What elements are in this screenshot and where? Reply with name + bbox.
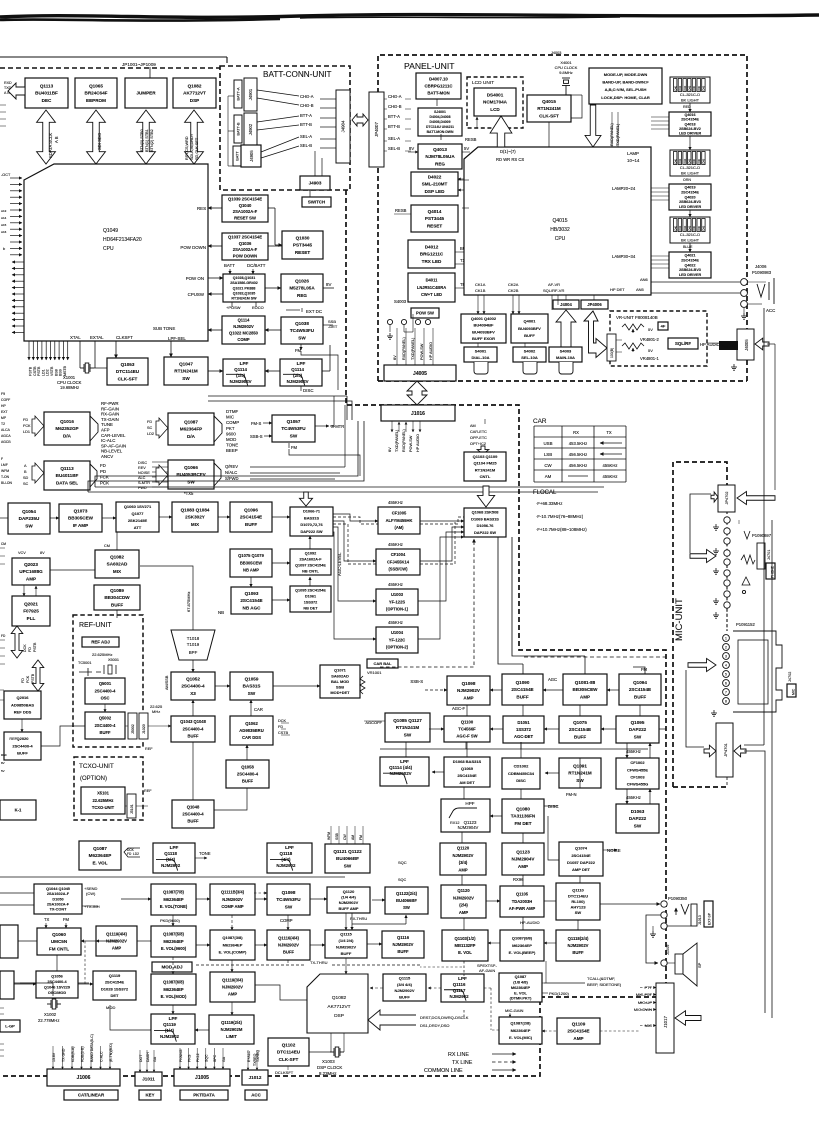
- svg-text:Q5001: Q5001: [99, 681, 112, 686]
- svg-text:CHG-B: CHG-B: [388, 104, 402, 109]
- svg-text:Q1087: Q1087: [93, 846, 107, 851]
- svg-text:DAP222: DAP222: [629, 816, 647, 821]
- connector J1005: [174, 1069, 230, 1086]
- svg-text:AMP: AMP: [26, 576, 36, 581]
- LPF Q1114 4/4: [380, 757, 429, 786]
- Q1095 SW: [616, 716, 659, 743]
- svg-text:2SC4400-4: 2SC4400-4: [95, 723, 116, 728]
- svg-text:Q1037 2SC4154E: Q1037 2SC4154E: [228, 235, 262, 240]
- svg-text:LAMP20~24: LAMP20~24: [612, 186, 636, 191]
- svg-text:DS1,DRDY,DSO: DS1,DRDY,DSO: [420, 1023, 450, 1028]
- svg-text:9600: 9600: [226, 431, 236, 436]
- REF ADJ label: [82, 637, 119, 647]
- svg-text:Q1095 2SC4154E: Q1095 2SC4154E: [295, 588, 326, 592]
- jack contact: [724, 517, 730, 523]
- svg-text:SQL/RF-VR: SQL/RF-VR: [543, 288, 564, 293]
- Q5002 BUFF: [85, 712, 125, 739]
- arrow JP4701 left: [704, 745, 716, 757]
- LED driver 2: [669, 184, 711, 210]
- wire into Q1090 top: [522, 664, 524, 674]
- connector J1016: [381, 405, 455, 421]
- svg-text:Q1114: Q1114: [291, 367, 304, 372]
- jack contact: [742, 590, 745, 593]
- jumper block: [125, 78, 167, 108]
- mid bus AGC-F etc: [429, 764, 432, 766]
- svg-text:∙F-10.7MHz(76~88MHz): ∙F-10.7MHz(76~88MHz): [536, 514, 584, 519]
- jack contact: [723, 689, 730, 696]
- svg-text:LD2: LD2: [133, 852, 139, 856]
- svg-text:Q1119(2/4): Q1119(2/4): [221, 1020, 242, 1025]
- svg-text:NJM2902V: NJM2902V: [393, 942, 414, 947]
- Q1080 FM DET: [502, 799, 544, 833]
- svg-text:D1028 1SS372: D1028 1SS372: [101, 986, 129, 991]
- wires right of E.VOL row1: [121, 898, 151, 900]
- Q1100 AGC-F SW: [444, 716, 490, 742]
- svg-text:Q1036: Q1036: [239, 241, 252, 246]
- svg-text:COMP AMP: COMP AMP: [221, 904, 244, 909]
- Q1095 NB DET: [290, 586, 331, 612]
- Q2016 REF DDS: [4, 691, 41, 719]
- wire ACC down: [763, 308, 765, 745]
- svg-text:NJM2902V: NJM2902V: [453, 895, 474, 900]
- svg-text:BUFF: BUFF: [245, 522, 257, 527]
- wire Q1095 sw right to border: [659, 728, 666, 730]
- svg-text:DASH: DASH: [146, 1052, 150, 1062]
- svg-text:Q1043 Q1048: Q1043 Q1048: [180, 719, 206, 724]
- svg-text:AM: AM: [351, 835, 355, 840]
- svg-text:E. VOL(MOD): E. VOL(MOD): [161, 994, 187, 999]
- svg-text:(4/4): (4/4): [281, 857, 291, 862]
- wire POW ON: [208, 277, 223, 279]
- svg-text:FM DET: FM DET: [514, 821, 531, 826]
- svg-text:(1/8 4/8): (1/8 4/8): [513, 980, 528, 985]
- svg-text:CL-321C-D: CL-321C-D: [680, 232, 700, 237]
- arrow into right SW: [477, 486, 494, 507]
- svg-text:Q1110: Q1110: [572, 888, 584, 893]
- svg-text:MIC: MIC: [226, 415, 234, 420]
- svg-text:D4007.10: D4007.10: [429, 76, 448, 81]
- svg-text:D40: D40: [679, 158, 682, 163]
- svg-text:REF: REF: [144, 789, 152, 793]
- wire jack loop: [646, 915, 661, 963]
- svg-text:J4003: J4003: [551, 51, 561, 55]
- D1063 SW: [616, 804, 659, 833]
- svg-text:2SC4154E: 2SC4154E: [567, 1029, 589, 1034]
- svg-text:FM-N: FM-N: [566, 792, 576, 797]
- svg-text:2SB624-BV3: 2SB624-BV3: [679, 200, 701, 204]
- svg-text:AMP: AMP: [580, 694, 590, 699]
- dashed col x85: [84, 941, 86, 984]
- svg-text:1SS372: 1SS372: [304, 600, 318, 604]
- svg-text:E+ALC: E+ALC: [247, 1050, 251, 1062]
- svg-text:SEL-10A: SEL-10A: [521, 355, 538, 360]
- wire reset: [275, 244, 282, 246]
- Q1092 NB CNTL: [290, 549, 331, 575]
- svg-text:IF AMP: IF AMP: [73, 523, 88, 528]
- connector J4905: [241, 145, 261, 167]
- svg-text:(SSB/CW): (SSB/CW): [388, 567, 408, 572]
- svg-text:Q1113: Q1113: [60, 466, 74, 471]
- svg-text:TXD(PANEL): TXD(PANEL): [411, 337, 415, 360]
- svg-text:Q1069: Q1069: [461, 766, 474, 771]
- svg-text:BB305CEW: BB305CEW: [240, 560, 262, 565]
- svg-text:RESET: RESET: [427, 223, 443, 228]
- Q4014 RESET: [411, 205, 458, 232]
- VR-UNIT dashed: [610, 311, 707, 366]
- svg-text:D1070,72,76: D1070,72,76: [300, 522, 323, 527]
- svg-text:REF-UNIT: REF-UNIT: [79, 622, 112, 629]
- bus arrow DSP ctl: [185, 110, 204, 164]
- svg-text:PANEL-UNIT: PANEL-UNIT: [404, 61, 455, 71]
- svg-text:AGCB: AGCB: [1, 440, 11, 444]
- svg-text:NB CNTL: NB CNTL: [302, 569, 319, 573]
- trimmer + crystal: [79, 668, 101, 676]
- svg-text:AK7712VT: AK7712VT: [327, 1004, 350, 1010]
- jack contact: [387, 319, 392, 324]
- svg-text:BATT-MON: BATT-MON: [427, 91, 449, 96]
- D4011 CW+T LED: [408, 273, 455, 302]
- Q1047 SW: [164, 357, 208, 385]
- svg-text:CLK-SFT: CLK-SFT: [279, 1057, 299, 1062]
- svg-text:SJ4001: SJ4001: [434, 110, 446, 114]
- svg-text:RST,CS,WRD: RST,CS,WRD: [185, 136, 189, 160]
- Q1073 IF AMP: [59, 504, 102, 532]
- svg-text:+POSW: +POSW: [226, 305, 241, 310]
- svg-text:TCXO-UNIT: TCXO-UNIT: [92, 805, 115, 810]
- svg-text:Q1022 MC2850: Q1022 MC2850: [229, 331, 259, 336]
- svg-text:BATT: BATT: [224, 263, 235, 268]
- CPU Q4015: [464, 147, 651, 295]
- svg-text:X1002: X1002: [44, 1012, 57, 1017]
- svg-text:E. VOL(9600): E. VOL(9600): [161, 946, 187, 951]
- Q2023 AMP: [12, 558, 50, 585]
- svg-text:22.778MHz: 22.778MHz: [38, 1018, 59, 1023]
- svg-text:E. VOL: E. VOL: [458, 950, 472, 955]
- svg-text:SDLK,SI,DRDY: SDLK,SI,DRDY: [190, 133, 194, 160]
- svg-text:5V: 5V: [1, 769, 5, 773]
- svg-text:LED DRIVER: LED DRIVER: [679, 132, 702, 136]
- svg-text:CAR: CAR: [254, 707, 263, 712]
- LCD unit dashed: [467, 77, 523, 128]
- svg-text:Q1074: Q1074: [575, 846, 588, 851]
- svg-text:19.68MHz: 19.68MHz: [60, 385, 79, 390]
- svg-text:CFJ455K14: CFJ455K14: [387, 559, 410, 564]
- svg-text:AM: AM: [470, 424, 476, 428]
- svg-text:Q1119: Q1119: [163, 1022, 176, 1027]
- svg-text:NJM2902V: NJM2902V: [336, 945, 356, 950]
- connector J4903: [300, 176, 330, 190]
- left col labels mid: [0, 689, 4, 691]
- svg-text:9.8MHz: 9.8MHz: [559, 70, 572, 75]
- svg-text:RXD(PANEL): RXD(PANEL): [402, 337, 406, 360]
- svg-text:P1090350: P1090350: [668, 896, 688, 901]
- svg-text:Q1105: Q1105: [516, 892, 529, 897]
- svg-text:LMF: LMF: [1, 463, 8, 467]
- DSP Q1082: [307, 974, 368, 1033]
- Q1037/Q1036 POW DOWN: [222, 233, 268, 260]
- svg-text:Q1032,Q1035: Q1032,Q1035: [233, 292, 256, 296]
- svg-text:X5001: X5001: [108, 658, 119, 662]
- encoder S4002: [513, 347, 546, 362]
- svg-text:SW: SW: [290, 433, 298, 438]
- wire J1016 to IF bus: [95, 421, 358, 487]
- svg-text:CHG-B: CHG-B: [300, 103, 314, 108]
- svg-text:S4001: S4001: [475, 349, 487, 354]
- svg-text:10~14: 10~14: [627, 158, 640, 163]
- svg-text:MOD: MOD: [226, 437, 236, 442]
- svg-text:BEEP: BEEP: [226, 448, 238, 453]
- wire AGC-F down: [466, 705, 468, 716]
- svg-text:Q4001 Q4002: Q4001 Q4002: [471, 316, 497, 321]
- svg-text:CAR: CAR: [533, 418, 547, 425]
- svg-text:M5278L05A: M5278L05A: [289, 286, 315, 291]
- svg-text:WFM: WFM: [327, 832, 331, 840]
- RES8 wires panel left: [409, 198, 411, 205]
- wire Q/REV: [250, 466, 345, 468]
- svg-text:DOT: DOT: [139, 1054, 143, 1062]
- svg-text:Q1118: Q1118: [164, 851, 177, 856]
- edge box 3: [0, 971, 14, 999]
- jack contact: [724, 602, 730, 608]
- ground: [713, 612, 719, 618]
- svg-text:D40: D40: [674, 225, 677, 230]
- svg-text:DAP222: DAP222: [629, 727, 647, 732]
- svg-text:Q1095: Q1095: [631, 720, 645, 725]
- svg-text:DTMF: DTMF: [226, 409, 239, 414]
- connector J1012: [242, 1070, 268, 1085]
- svg-text:BUFF: BUFF: [111, 602, 123, 607]
- svg-text:Q1114: Q1114: [234, 367, 247, 372]
- svg-text:TXD: TXD: [4, 86, 12, 90]
- svg-text:FSTB: FSTB: [31, 673, 35, 683]
- svg-text:AMP: AMP: [228, 992, 238, 997]
- svg-text:PKD(9600): PKD(9600): [160, 918, 180, 923]
- LPF Q1118 4/4: [267, 843, 312, 873]
- svg-text:P1091152: P1091152: [736, 622, 755, 627]
- jack contact: [741, 290, 748, 297]
- svg-text:F07925: F07925: [23, 609, 39, 614]
- svg-text:2SC4400-4: 2SC4400-4: [183, 726, 204, 731]
- svg-text:AMP: AMP: [518, 864, 528, 869]
- squiggle sym: [741, 555, 755, 564]
- svg-text:FD: FD: [147, 420, 152, 424]
- svg-text:Q1117: Q1117: [453, 988, 466, 993]
- svg-text:MODE-UP, MODE-DWN: MODE-UP, MODE-DWN: [604, 72, 648, 77]
- svg-text:P1090697: P1090697: [752, 533, 772, 538]
- svg-text:Q1109: Q1109: [572, 1021, 586, 1026]
- svg-text:AMP: AMP: [112, 946, 122, 951]
- svg-text:2SA1602A-F: 2SA1602A-F: [299, 557, 322, 561]
- backlight D4021 group: [670, 217, 710, 243]
- jack contact: [724, 538, 730, 544]
- batt-conn-unit border: [220, 66, 350, 190]
- svg-text:SQL/RF: SQL/RF: [675, 341, 691, 346]
- U1003 option filter: [376, 589, 418, 615]
- svg-text:AGC: AGC: [548, 677, 557, 682]
- svg-text:IC-ALC: IC-ALC: [101, 438, 115, 443]
- svg-text:COMP: COMP: [280, 918, 293, 923]
- svg-text:D/A: D/A: [187, 434, 196, 439]
- svg-text:ATT: ATT: [134, 525, 142, 530]
- svg-text:NJM2904V: NJM2904V: [512, 857, 536, 862]
- wire FM-S: [289, 449, 360, 476]
- svg-text:BATT-MON:DWN: BATT-MON:DWN: [427, 130, 454, 134]
- VR4801-2: [622, 324, 644, 330]
- svg-text:J4901: J4901: [248, 88, 253, 100]
- svg-text:RX: RX: [573, 430, 579, 435]
- svg-text:Q1116: Q1116: [397, 935, 410, 940]
- svg-text:SDI SDO: SDI SDO: [97, 132, 102, 150]
- svg-text:HP AUDIO: HP AUDIO: [416, 434, 420, 452]
- Q1087 5/8 E.VOL 9600: [151, 926, 196, 957]
- wire loop from left: [690, 494, 711, 553]
- svg-text:CK2B: CK2B: [508, 288, 519, 293]
- svg-text:FD: FD: [21, 678, 25, 683]
- bottom: long horizontals into left boxes: [0, 517, 8, 519]
- svg-text:J4701: J4701: [767, 550, 771, 560]
- svg-text:NJM2902: NJM2902: [450, 994, 470, 999]
- svg-text:RES: RES: [197, 206, 206, 211]
- svg-text:KDB(B-A): KDB(B-A): [71, 1047, 75, 1062]
- svg-text:8.23MHz: 8.23MHz: [319, 1071, 337, 1076]
- svg-text:Q1016: Q1016: [60, 419, 74, 424]
- Q1110 SW: [556, 883, 600, 920]
- svg-text:BTN(2) STB2: BTN(2) STB2: [150, 129, 154, 152]
- D1051 AGC-DET: [503, 716, 544, 743]
- svg-text:JP1001~JP1009: JP1001~JP1009: [122, 62, 156, 67]
- svg-text:2SA1002A-F: 2SA1002A-F: [233, 209, 258, 214]
- svg-text:D40: D40: [684, 225, 687, 230]
- svg-text:BTT-B: BTT-B: [300, 122, 312, 127]
- Q1044 TX-CONT: [34, 884, 82, 914]
- Q1057 SW: [272, 415, 315, 442]
- svg-text:E. VOL: E. VOL: [92, 860, 107, 865]
- svg-text:8V: 8V: [409, 146, 414, 151]
- svg-text:2SC4400-4: 2SC4400-4: [12, 743, 33, 748]
- Q1089 BUFF: [94, 585, 140, 610]
- svg-text:BATT-CONN-UNIT: BATT-CONN-UNIT: [263, 70, 332, 79]
- svg-text:BU4011BF: BU4011BF: [56, 473, 79, 478]
- svg-text:EXTAL: EXTAL: [90, 335, 104, 340]
- svg-text:A B: A B: [4, 91, 10, 95]
- svg-text:SW: SW: [634, 823, 642, 828]
- wire SEL to J4903: [314, 151, 316, 176]
- svg-text:BB305CEW: BB305CEW: [572, 687, 598, 692]
- left-edge tiny clutter: [0, 104, 6, 106]
- svg-text:Q1048: Q1048: [187, 804, 200, 809]
- svg-text:VR4801-1: VR4801-1: [640, 356, 660, 361]
- svg-text:Q1122(2/4): Q1122(2/4): [396, 891, 418, 896]
- svg-text:RT1N241M: RT1N241M: [475, 467, 496, 472]
- svg-text:CLKSFT: CLKSFT: [116, 335, 133, 340]
- svg-text:455KHz: 455KHz: [388, 542, 403, 547]
- svg-text:REF DDS: REF DDS: [14, 710, 32, 715]
- svg-text:J1006: J1006: [77, 1075, 91, 1081]
- jack contact: [425, 319, 430, 324]
- svg-text:Q1030: Q1030: [296, 235, 310, 240]
- svg-text:Q1093: Q1093: [245, 591, 259, 596]
- connector J1011: [135, 1072, 162, 1086]
- svg-text:BTN(0) STB0: BTN(0) STB0: [140, 129, 144, 152]
- wire mic loop: [686, 670, 704, 747]
- svg-text:D40: D40: [674, 158, 677, 163]
- svg-text:455KHz: 455KHz: [603, 463, 618, 468]
- svg-text:AN6: AN6: [640, 277, 649, 282]
- svg-text:HD64F2134FA20: HD64F2134FA20: [103, 237, 142, 243]
- svg-text:FM: FM: [63, 917, 70, 922]
- svg-text:(1/4 4/4): (1/4 4/4): [341, 895, 356, 900]
- svg-text:D40: D40: [698, 85, 701, 90]
- svg-text:J1011: J1011: [142, 1077, 155, 1082]
- svg-text:D40: D40: [693, 85, 696, 90]
- svg-text:BLUE: BLUE: [683, 245, 693, 249]
- svg-text:BK LIGHT: BK LIGHT: [681, 171, 700, 176]
- svg-text:TDA2003H: TDA2003H: [512, 899, 533, 904]
- svg-text:DSP CLOCK: DSP CLOCK: [317, 1065, 342, 1070]
- S-MTR wire: [330, 396, 334, 426]
- svg-text:CL-321C-D: CL-321C-D: [680, 165, 700, 170]
- connector J4901: [244, 78, 257, 111]
- svg-text:Q1087(6/8): Q1087(6/8): [163, 980, 184, 985]
- svg-text:M62364EP: M62364EP: [163, 939, 184, 944]
- wire bus2: [208, 401, 352, 420]
- wire SW to Q1081: [512, 537, 585, 656]
- svg-text:P1090983: P1090983: [752, 270, 772, 275]
- svg-text:U1003: U1003: [391, 592, 404, 597]
- U1004 option filter: [376, 627, 418, 653]
- Q1120 3/4 AMP: [440, 843, 486, 875]
- svg-text:NJM2902V: NJM2902V: [287, 379, 309, 384]
- arrow RXD out: [8, 83, 25, 99]
- svg-text:BAND-UP, BAND-DWN:F: BAND-UP, BAND-DWN:F: [602, 80, 649, 85]
- Q1075 BUFF: [559, 716, 601, 743]
- svg-text:RX12: RX12: [450, 821, 460, 825]
- svg-text:S4002: S4002: [524, 349, 536, 354]
- svg-text:ACC: ACC: [766, 308, 775, 313]
- jack contact: [723, 644, 730, 651]
- jack contact: [741, 301, 748, 308]
- svg-text:(OPTION-1): (OPTION-1): [386, 607, 409, 612]
- svg-text:J4905: J4905: [249, 150, 254, 162]
- svg-text:COMP: COMP: [226, 420, 239, 425]
- svg-text:AGCA: AGCA: [1, 434, 11, 438]
- svg-text:Q1114: Q1114: [238, 318, 251, 323]
- svg-text:MIC: MIC: [792, 688, 796, 695]
- wire SW to Q1090: [498, 537, 523, 664]
- Q5001 OSC: [85, 678, 125, 704]
- svg-text:RX-THRU: RX-THRU: [350, 917, 367, 921]
- svg-text:BU4066BF: BU4066BF: [336, 856, 359, 861]
- svg-text:J4005: J4005: [413, 371, 427, 377]
- svg-text:TC4W53FU: TC4W53FU: [281, 426, 306, 431]
- svg-text:NJM2902V: NJM2902V: [568, 943, 589, 948]
- svg-text:(1/4): (1/4): [165, 1028, 175, 1033]
- svg-text:D1063: D1063: [631, 809, 645, 814]
- svg-text:FD: FD: [28, 647, 32, 652]
- jack contact: [724, 570, 730, 576]
- svg-text:WFM: WFM: [1, 469, 9, 473]
- Q1039/Q1040 RESET SW: [222, 195, 268, 222]
- svg-text:T-ON: T-ON: [1, 475, 10, 479]
- svg-text:BUFF: BUFF: [634, 694, 646, 699]
- svg-text:OSC/MOD: OSC/MOD: [48, 991, 66, 995]
- svg-text:ORN: ORN: [683, 178, 691, 182]
- svg-text:LSB: LSB: [544, 452, 552, 457]
- svg-text:PKG: PKG: [187, 1054, 191, 1062]
- svg-text:Q1047: Q1047: [179, 361, 193, 366]
- svg-text:(3/4): (3/4): [459, 860, 468, 865]
- svg-text:22.625MHz: 22.625MHz: [93, 798, 114, 803]
